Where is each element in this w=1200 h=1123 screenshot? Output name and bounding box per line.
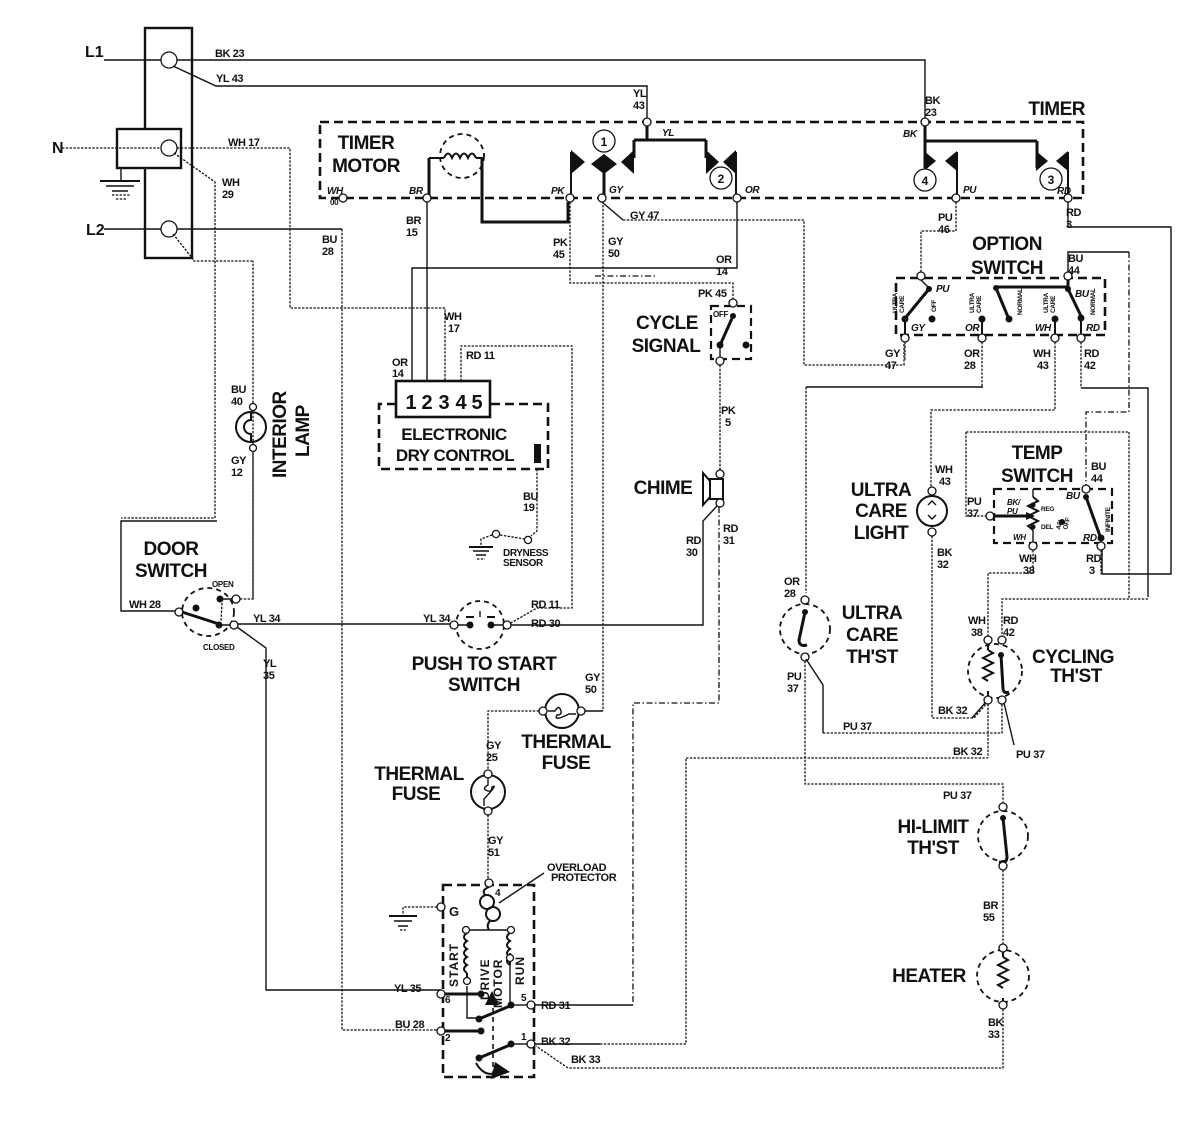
svg-text:WH: WH <box>1019 553 1037 565</box>
svg-text:SENSOR: SENSOR <box>503 558 544 569</box>
svg-text:THERMAL: THERMAL <box>374 764 464 785</box>
svg-text:37: 37 <box>787 683 799 695</box>
svg-text:BR: BR <box>983 900 999 912</box>
svg-text:31: 31 <box>723 535 735 547</box>
svg-text:GY: GY <box>911 323 926 334</box>
svg-text:PU: PU <box>938 212 953 224</box>
svg-text:15: 15 <box>406 227 418 239</box>
svg-text:BK 32: BK 32 <box>953 746 982 758</box>
svg-text:LIGHT: LIGHT <box>854 523 909 544</box>
svg-text:33: 33 <box>988 1029 1000 1041</box>
svg-text:WH: WH <box>327 186 344 197</box>
svg-text:CHIME: CHIME <box>634 478 693 499</box>
svg-text:CARE: CARE <box>1050 295 1057 313</box>
svg-text:4: 4 <box>495 888 501 899</box>
svg-text:17: 17 <box>448 323 460 335</box>
svg-text:PU: PU <box>936 284 950 295</box>
svg-text:2: 2 <box>445 1033 451 1044</box>
svg-text:CYCLE: CYCLE <box>636 313 698 334</box>
svg-text:DRY CONTROL: DRY CONTROL <box>396 446 514 465</box>
svg-text:RD 31: RD 31 <box>541 1000 570 1012</box>
svg-text:RD: RD <box>1084 348 1100 360</box>
svg-text:GY: GY <box>585 672 601 684</box>
svg-text:2: 2 <box>421 392 432 414</box>
svg-text:OR: OR <box>745 185 760 196</box>
svg-text:28: 28 <box>784 588 796 600</box>
svg-text:OFF: OFF <box>931 300 938 312</box>
svg-text:CARE: CARE <box>846 625 898 646</box>
svg-text:1: 1 <box>405 392 416 414</box>
svg-text:RD: RD <box>1083 533 1097 544</box>
svg-text:BK: BK <box>937 547 953 559</box>
svg-text:38: 38 <box>971 627 983 639</box>
svg-text:6: 6 <box>445 995 451 1006</box>
svg-text:RD 30: RD 30 <box>531 618 560 630</box>
svg-text:DOOR: DOOR <box>144 539 200 560</box>
svg-text:3: 3 <box>1048 173 1055 187</box>
svg-text:MOTOR: MOTOR <box>332 156 401 177</box>
svg-text:WH 28: WH 28 <box>129 599 161 611</box>
svg-text:37: 37 <box>967 508 979 520</box>
svg-text:19: 19 <box>523 502 535 514</box>
svg-text:BR: BR <box>406 215 422 227</box>
svg-text:PK: PK <box>553 237 568 249</box>
svg-text:YL: YL <box>662 128 674 139</box>
svg-text:14: 14 <box>716 266 729 278</box>
svg-text:YL 43: YL 43 <box>216 73 243 85</box>
svg-text:43: 43 <box>1037 360 1049 372</box>
svg-text:3: 3 <box>1089 565 1095 577</box>
svg-text:INTERIOR: INTERIOR <box>270 390 291 478</box>
svg-text:RD: RD <box>1066 207 1082 219</box>
svg-text:50: 50 <box>585 684 597 696</box>
svg-text:SWITCH: SWITCH <box>1001 466 1073 487</box>
svg-text:YL: YL <box>633 88 647 100</box>
svg-text:4: 4 <box>455 392 467 414</box>
svg-text:CYCLING: CYCLING <box>1032 647 1114 668</box>
svg-text:ULTRA: ULTRA <box>892 292 899 313</box>
svg-text:PU 37: PU 37 <box>843 721 872 733</box>
svg-text:RD: RD <box>723 523 739 535</box>
svg-text:BU 28: BU 28 <box>395 1019 424 1031</box>
svg-text:THERMAL: THERMAL <box>521 732 611 753</box>
svg-text:PK: PK <box>721 405 736 417</box>
svg-text:BK 32: BK 32 <box>938 705 967 717</box>
svg-text:REG: REG <box>1041 506 1054 513</box>
svg-text:1: 1 <box>601 135 608 149</box>
svg-text:5: 5 <box>471 392 482 414</box>
svg-text:OR: OR <box>784 576 800 588</box>
svg-text:50: 50 <box>608 248 620 260</box>
svg-text:CARE: CARE <box>855 501 907 522</box>
svg-text:L1: L1 <box>85 44 104 61</box>
svg-text:OPEN: OPEN <box>212 580 234 589</box>
svg-text:YL 35: YL 35 <box>394 983 421 995</box>
svg-text:BK 33: BK 33 <box>571 1054 600 1066</box>
svg-text:RD: RD <box>686 535 702 547</box>
svg-text:PU: PU <box>967 496 982 508</box>
svg-text:ULTRA: ULTRA <box>969 292 976 313</box>
svg-text:3: 3 <box>438 392 449 414</box>
svg-text:TH'ST: TH'ST <box>1050 666 1103 687</box>
svg-text:3: 3 <box>1066 219 1072 231</box>
svg-text:BU: BU <box>1068 253 1084 265</box>
svg-text:GY: GY <box>231 455 247 467</box>
svg-text:SWITCH: SWITCH <box>135 561 207 582</box>
svg-text:BU: BU <box>231 384 247 396</box>
svg-text:NORMAL: NORMAL <box>1090 288 1097 315</box>
svg-text:TEMP: TEMP <box>1012 443 1064 464</box>
svg-text:32: 32 <box>937 559 949 571</box>
svg-text:OR: OR <box>716 254 732 266</box>
svg-text:FUSE: FUSE <box>542 753 591 774</box>
svg-text:RD: RD <box>1086 553 1102 565</box>
svg-text:PU 37: PU 37 <box>943 790 972 802</box>
svg-text:23: 23 <box>925 107 937 119</box>
svg-text:PK 45: PK 45 <box>698 288 727 300</box>
svg-text:G: G <box>449 904 459 919</box>
svg-text:BK/: BK/ <box>1007 498 1021 507</box>
svg-text:BU: BU <box>1066 491 1081 502</box>
svg-text:SWITCH: SWITCH <box>448 675 520 696</box>
svg-text:GY: GY <box>885 348 901 360</box>
svg-text:WH: WH <box>1013 533 1026 542</box>
svg-text:WH: WH <box>968 615 986 627</box>
svg-text:ULTRA: ULTRA <box>1043 292 1050 313</box>
svg-text:PU: PU <box>1007 507 1018 516</box>
svg-text:ULTRA: ULTRA <box>842 603 903 624</box>
svg-text:TH'ST: TH'ST <box>846 647 899 668</box>
svg-text:BU: BU <box>1075 289 1090 300</box>
svg-text:28: 28 <box>964 360 976 372</box>
svg-text:RD: RD <box>1057 186 1071 197</box>
svg-text:38: 38 <box>1023 565 1035 577</box>
svg-text:N: N <box>52 140 64 157</box>
svg-text:GY: GY <box>609 185 624 196</box>
svg-text:46: 46 <box>938 224 950 236</box>
svg-text:GY: GY <box>608 236 624 248</box>
svg-text:28: 28 <box>322 246 334 258</box>
svg-text:RD: RD <box>1086 323 1100 334</box>
svg-text:30: 30 <box>686 547 698 559</box>
svg-text:BK 32: BK 32 <box>541 1036 570 1048</box>
svg-text:BK: BK <box>988 1017 1004 1029</box>
svg-text:PK: PK <box>551 186 565 197</box>
svg-text:CARE: CARE <box>976 295 983 313</box>
svg-text:WH 17: WH 17 <box>228 137 260 149</box>
svg-text:START: START <box>447 943 461 987</box>
svg-text:ELECTRONIC: ELECTRONIC <box>401 425 507 444</box>
svg-text:GY: GY <box>488 835 504 847</box>
svg-text:HI-LIMIT: HI-LIMIT <box>898 817 970 838</box>
svg-text:44: 44 <box>1091 473 1104 485</box>
svg-text:43: 43 <box>633 100 645 112</box>
svg-text:L2: L2 <box>86 222 105 239</box>
svg-text:35: 35 <box>263 670 275 682</box>
svg-text:DEL: DEL <box>1041 524 1053 531</box>
svg-text:44: 44 <box>1068 265 1081 277</box>
svg-text:CARE: CARE <box>899 295 906 313</box>
svg-text:GY: GY <box>486 740 502 752</box>
svg-text:51: 51 <box>488 847 500 859</box>
svg-text:SIGNAL: SIGNAL <box>632 336 702 357</box>
svg-text:2: 2 <box>718 172 725 186</box>
svg-text:42: 42 <box>1084 360 1096 372</box>
svg-text:WH: WH <box>1033 348 1051 360</box>
svg-text:WH: WH <box>1035 323 1052 334</box>
svg-text:14: 14 <box>392 368 405 380</box>
svg-text:RD 11: RD 11 <box>466 350 495 362</box>
svg-text:WH: WH <box>222 177 240 189</box>
svg-text:PU: PU <box>963 185 977 196</box>
svg-text:BK: BK <box>903 129 918 140</box>
svg-text:TIMER: TIMER <box>338 133 395 154</box>
svg-text:GY 47: GY 47 <box>630 210 659 222</box>
svg-text:PUSH TO START: PUSH TO START <box>412 654 558 675</box>
svg-text:47: 47 <box>885 360 897 372</box>
svg-text:BK 23: BK 23 <box>215 48 244 60</box>
svg-text:00: 00 <box>330 198 339 207</box>
svg-text:YL 34: YL 34 <box>253 613 281 625</box>
svg-text:LAMP: LAMP <box>293 404 314 457</box>
svg-text:TH'ST: TH'ST <box>907 838 960 859</box>
svg-text:PU: PU <box>787 671 802 683</box>
svg-text:45: 45 <box>553 249 565 261</box>
svg-text:OPTION: OPTION <box>972 234 1042 255</box>
svg-text:1: 1 <box>521 1032 527 1043</box>
svg-text:FUSE: FUSE <box>392 784 441 805</box>
svg-text:SWITCH: SWITCH <box>971 258 1043 279</box>
svg-text:ULTRA: ULTRA <box>851 480 912 501</box>
svg-text:43: 43 <box>939 476 951 488</box>
svg-text:5: 5 <box>725 417 731 429</box>
svg-text:PROTECTOR: PROTECTOR <box>551 872 617 884</box>
svg-text:4: 4 <box>922 174 929 188</box>
svg-text:WH: WH <box>444 311 462 323</box>
svg-text:25: 25 <box>486 752 498 764</box>
svg-text:TIMER: TIMER <box>1028 99 1085 120</box>
svg-text:BK: BK <box>925 95 941 107</box>
svg-text:PU 37: PU 37 <box>1016 749 1045 761</box>
svg-text:BU: BU <box>1091 461 1107 473</box>
svg-text:NORMAL: NORMAL <box>1017 288 1024 315</box>
svg-text:RUN: RUN <box>513 956 527 985</box>
svg-text:12: 12 <box>231 467 243 479</box>
svg-text:HEATER: HEATER <box>892 966 966 987</box>
svg-text:YL 34: YL 34 <box>423 613 451 625</box>
svg-text:RD: RD <box>1003 615 1019 627</box>
svg-text:INFINITE: INFINITE <box>1105 506 1112 532</box>
svg-text:OR: OR <box>965 323 980 334</box>
svg-text:RD 11: RD 11 <box>531 599 560 611</box>
svg-text:OFF: OFF <box>713 310 729 319</box>
svg-text:CLOSED: CLOSED <box>203 643 235 652</box>
svg-text:OR: OR <box>964 348 980 360</box>
svg-text:55: 55 <box>983 912 995 924</box>
svg-text:BR: BR <box>409 186 424 197</box>
svg-text:40: 40 <box>231 396 243 408</box>
svg-text:BU: BU <box>322 234 338 246</box>
svg-text:29: 29 <box>222 189 234 201</box>
svg-text:42: 42 <box>1003 627 1015 639</box>
svg-text:5: 5 <box>521 993 527 1004</box>
svg-text:WH: WH <box>935 464 953 476</box>
svg-text:YL: YL <box>263 658 277 670</box>
